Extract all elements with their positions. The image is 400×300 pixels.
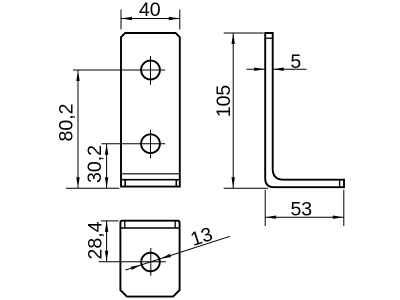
dimension 5 arrow right (pointing left) <box>273 68 284 71</box>
svg-text:30,2: 30,2 <box>84 145 106 183</box>
hole bottom centerline vertical <box>150 130 152 159</box>
bottom extension line (front view base) <box>66 187 119 189</box>
dimension 105 bottom extension line <box>224 187 268 189</box>
dimension 53 arrow left <box>265 216 276 219</box>
hole diameter 13 leader line <box>126 236 231 270</box>
dimension 28,4 arrow bottom <box>105 251 108 262</box>
end face tick left <box>124 221 126 228</box>
end face tick right <box>174 221 176 228</box>
plate top end tick <box>265 37 273 39</box>
dimension 80,2 arrow bottom <box>76 177 79 188</box>
dimension 40 extension line right <box>179 10 181 30</box>
hole bottom centerline horizontal (extension for 30,2) <box>102 143 166 145</box>
dimension 30,2 arrow bottom <box>105 177 108 188</box>
leg side edge tick left <box>124 180 126 187</box>
dimension 28,4 line <box>106 221 108 262</box>
dimension 40 arrow left <box>121 17 132 20</box>
L-profile outline <box>265 33 344 187</box>
hole top <box>141 61 160 80</box>
dimension 40 arrow right <box>169 17 180 20</box>
dimension 5 left tail <box>247 68 266 70</box>
hole in leg <box>141 253 160 272</box>
hole top centerline vertical <box>150 56 152 85</box>
hole centerline vertical <box>150 248 152 276</box>
dimension 53 left extension line <box>264 190 266 226</box>
dimension 30,2 arrow top <box>105 144 108 155</box>
bracket front outline <box>121 33 180 187</box>
leader arrow upper-right (pointing to hole) <box>160 254 171 259</box>
svg-text:28,4: 28,4 <box>84 221 106 259</box>
dimension 28,4 top extension line <box>101 220 119 222</box>
dimension 30,2 line <box>106 144 108 189</box>
svg-text:5: 5 <box>290 51 301 73</box>
dimension 5 arrow left (pointing right) <box>254 68 265 71</box>
plate end face line <box>121 227 179 229</box>
hole top centerline horizontal (extension for 80,2) <box>73 69 165 71</box>
svg-text:80,2: 80,2 <box>56 104 78 142</box>
leg bottom outline <box>120 221 179 297</box>
svg-text:53: 53 <box>290 198 312 220</box>
hole bottom <box>141 134 160 153</box>
svg-text:40: 40 <box>139 0 161 21</box>
dimension 105 arrow top <box>232 33 235 44</box>
dimension 40 extension line left <box>120 10 122 30</box>
dimension 105 line <box>232 33 234 188</box>
dimension 80,2 arrow top <box>76 70 79 81</box>
dimension 5 right tail <box>273 68 307 70</box>
leader arrow lower-left (pointing to hole) <box>131 265 142 270</box>
dimension 40 line <box>121 18 180 20</box>
dimension 105 top extension line <box>224 32 264 34</box>
hole centerline horizontal (extension for 28,4) <box>99 261 166 263</box>
dimension 53 right extension line <box>343 190 345 226</box>
dimension 53 arrow right <box>333 216 344 219</box>
bend tangent line inner <box>122 173 179 175</box>
svg-text:105: 105 <box>213 85 235 118</box>
dimension 80,2 line <box>77 70 79 188</box>
leg side edge tick right <box>175 180 177 187</box>
dimension 105 arrow bottom <box>232 177 235 188</box>
dimension 28,4 arrow top <box>105 221 108 232</box>
leg end tick <box>339 180 341 188</box>
bend tangent line outer <box>122 179 179 181</box>
dimension 53 line <box>265 216 344 218</box>
